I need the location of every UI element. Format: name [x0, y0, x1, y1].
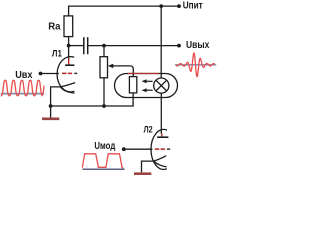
node junction cathode bus: [49, 104, 53, 108]
waveform input sine: [1, 80, 44, 96]
wire photoresistor bottom to bus: [51, 93, 134, 106]
node terminal Uvyh: [177, 44, 181, 48]
ground L1: [42, 117, 59, 120]
resistor divider R: [103, 46, 105, 57]
wire top supply rail: [69, 6, 179, 16]
svg-text:Л1: Л1: [52, 48, 63, 59]
triode L2 envelope: [151, 129, 167, 169]
node terminal Umod: [122, 147, 126, 151]
wire L1 grid input: [41, 73, 59, 75]
svg-text:Uпит: Uпит: [183, 0, 203, 11]
wire capacitor to Uvyh terminal: [88, 45, 179, 47]
arrowhead to divider R: [108, 64, 114, 68]
waveform Umod trapezoid: [82, 154, 123, 168]
triode L2 cathode filament: [154, 156, 167, 167]
triode L1 anode plate: [65, 64, 74, 66]
light arrow lower: [142, 88, 153, 92]
wire anode row to capacitor: [69, 45, 84, 47]
waveform Uvyh axis: [175, 64, 216, 66]
triode L1 anode red lead: [68, 59, 70, 65]
waveform Umod baseline: [82, 168, 124, 170]
node junction divider bus: [102, 104, 106, 108]
optocoupler housing: [115, 74, 178, 98]
wire LDR control arm with arrow: [111, 66, 133, 77]
wire L2 cathode lead: [142, 161, 154, 172]
triode L1 cathode filament: [60, 83, 75, 93]
light arrow upper: [142, 79, 153, 83]
wire lamp to L2 anode: [160, 93, 162, 133]
waveform Uvyh AM burst: [176, 53, 215, 77]
node junction divider: [102, 44, 106, 48]
waveform input sine axis: [1, 93, 45, 95]
wire Upit rail down to lamp: [160, 6, 162, 78]
triode L1 envelope: [57, 57, 74, 92]
triode L2 anode plate: [157, 136, 168, 138]
wire divider R bottom: [103, 78, 105, 106]
triode L1 grid dashes: [62, 72, 77, 74]
svg-text:Uвх: Uвх: [15, 70, 33, 81]
lamp: [154, 78, 169, 93]
wire Ra bottom to anode: [68, 37, 70, 60]
svg-text:Ra: Ra: [48, 22, 61, 33]
optocoupler housing red top segment: [128, 73, 159, 75]
triode L2 anode red lead: [161, 133, 163, 136]
svg-text:Uмод: Uмод: [94, 141, 116, 152]
svg-text:Uвых: Uвых: [186, 40, 210, 51]
node junction top (lamp branch): [159, 4, 163, 8]
photoresistor element: [129, 77, 136, 93]
wire L1 cathode lead: [51, 87, 61, 106]
svg-text:Л2: Л2: [144, 125, 153, 135]
resistor Ra: [64, 16, 73, 37]
wire ground stub L1: [50, 106, 52, 118]
capacitor C: [84, 37, 88, 54]
ground L2: [134, 172, 151, 175]
node junction anode row: [67, 44, 71, 48]
node terminal Upit: [177, 4, 181, 8]
wire L2 grid input: [124, 148, 153, 150]
node terminal Uvh: [39, 72, 43, 76]
triode L2 grid dashes: [155, 148, 170, 150]
